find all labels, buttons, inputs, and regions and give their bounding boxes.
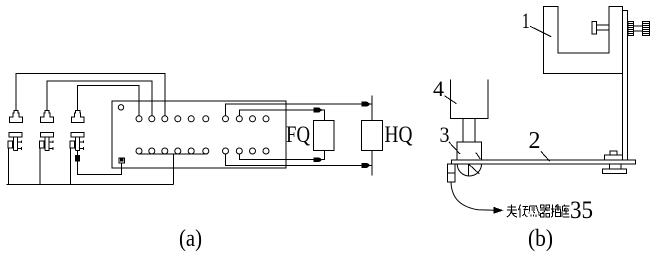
svg-text:3: 3 xyxy=(440,122,450,147)
svg-text:HQ: HQ xyxy=(385,122,413,147)
svg-text:1: 1 xyxy=(522,8,530,33)
svg-text:2: 2 xyxy=(529,128,541,154)
svg-text:FQ: FQ xyxy=(286,122,310,147)
svg-text:(a): (a) xyxy=(179,226,202,252)
svg-text:4: 4 xyxy=(433,76,444,101)
svg-text:(b): (b) xyxy=(528,226,553,252)
svg-text:35: 35 xyxy=(570,197,593,224)
